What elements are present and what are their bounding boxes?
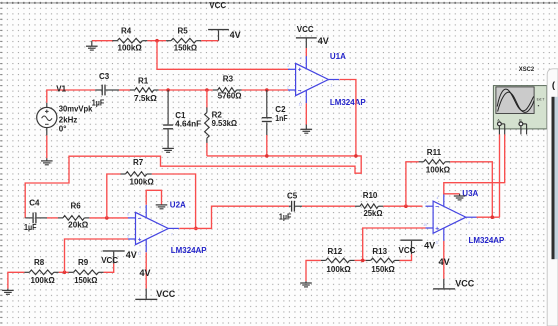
- resistor R12: [321, 247, 355, 274]
- wire: [147, 40, 166, 42]
- svg-text:4V: 4V: [439, 257, 450, 267]
- node junction R10/R11: [404, 204, 408, 208]
- wire: [159, 89, 213, 91]
- ground: [2, 289, 14, 295]
- svg-text:1µF: 1µF: [92, 98, 105, 107]
- svg-text:R9: R9: [78, 258, 89, 267]
- pin numbers U1A: [286, 57, 333, 107]
- wire R12 left to ground: [306, 260, 321, 281]
- svg-text:R4: R4: [121, 27, 132, 36]
- svg-text:+: +: [435, 225, 439, 232]
- svg-text:−: −: [298, 87, 302, 94]
- svg-text:C4: C4: [29, 199, 40, 208]
- node A junction R1/C1: [166, 88, 170, 92]
- power VCC 4V at R9: [101, 250, 137, 265]
- svg-text:4V: 4V: [140, 268, 151, 278]
- svg-text:VCC: VCC: [101, 256, 118, 265]
- svg-text:150kΩ: 150kΩ: [74, 276, 98, 285]
- wire: [47, 217, 58, 219]
- resistor R4: [112, 27, 147, 53]
- node junction R7/output: [194, 227, 198, 231]
- svg-text:Ext T: Ext T: [537, 98, 545, 102]
- oscilloscope XSC2: [493, 66, 546, 134]
- ground U3A: [454, 195, 466, 197]
- node junction R12/R13: [361, 259, 365, 263]
- svg-text:1: 1: [331, 84, 333, 88]
- wire V1 to ground: [46, 135, 48, 158]
- svg-text:11: 11: [299, 103, 303, 107]
- ground: [162, 147, 174, 149]
- source V1: [37, 85, 96, 136]
- wire U1A bottom pin to ground: [305, 103, 307, 124]
- svg-text:4V: 4V: [126, 250, 137, 260]
- node junction C2 bottom: [265, 154, 269, 158]
- power VCC 4V supply: [208, 1, 241, 41]
- op-amp U1A: [288, 52, 366, 107]
- pin numbers U3A: [423, 196, 470, 244]
- capacitor C3: [92, 72, 119, 107]
- svg-text:150kΩ: 150kΩ: [371, 265, 395, 274]
- svg-text:R11: R11: [427, 148, 442, 157]
- svg-text:150kΩ: 150kΩ: [174, 44, 198, 53]
- svg-text:R3: R3: [223, 75, 234, 84]
- svg-text:25kΩ: 25kΩ: [364, 209, 384, 218]
- svg-text:4: 4: [437, 196, 439, 200]
- power VCC 4V at R13: [399, 240, 436, 256]
- capacitor C4: [24, 199, 47, 233]
- node junction R11/output: [491, 215, 495, 219]
- ground: [301, 125, 313, 134]
- power VCC bottom U3A: [433, 257, 475, 290]
- svg-text:0°: 0°: [59, 125, 67, 134]
- svg-text:+: +: [298, 67, 302, 74]
- wire U2A output to C5: [179, 206, 289, 228]
- wire R9 to VCC: [104, 264, 114, 273]
- svg-text:R13: R13: [372, 247, 387, 256]
- resistor R7 feedback: [107, 158, 196, 228]
- wire U3A output: [477, 216, 500, 218]
- svg-text:R1: R1: [138, 76, 149, 85]
- svg-text:5: 5: [127, 234, 129, 238]
- svg-text:100kΩ: 100kΩ: [31, 276, 56, 285]
- svg-text:3: 3: [287, 64, 289, 68]
- svg-text:11: 11: [435, 240, 439, 244]
- wire U2A bottom pin 4V: [145, 252, 147, 298]
- svg-text:9: 9: [425, 201, 427, 205]
- svg-text:C3: C3: [99, 72, 110, 81]
- op-amp U3A: [426, 189, 505, 245]
- wire U3A + input to R12/R13: [363, 228, 426, 260]
- ground: [300, 281, 312, 287]
- svg-text:+: +: [138, 236, 142, 243]
- node junction R8/R9: [63, 271, 67, 275]
- wire: [355, 259, 366, 261]
- svg-text:U3A: U3A: [462, 189, 478, 198]
- pin numbers U2A: [127, 206, 173, 256]
- svg-text:VCC: VCC: [399, 246, 416, 255]
- svg-text:100kΩ: 100kΩ: [118, 44, 143, 53]
- svg-text:LM324AP: LM324AP: [171, 246, 207, 255]
- svg-text:4V: 4V: [318, 36, 329, 46]
- wire U3A bottom pin 4V: [443, 241, 445, 288]
- svg-text:−: −: [138, 215, 142, 222]
- svg-text:8: 8: [468, 221, 470, 225]
- svg-text:4V: 4V: [230, 30, 241, 40]
- node junction R2 top: [205, 88, 209, 92]
- svg-text:C5: C5: [287, 192, 298, 201]
- capacitor C5: [279, 192, 302, 222]
- node B junction C2 top: [265, 88, 269, 92]
- svg-text:LM324AP: LM324AP: [330, 98, 366, 107]
- svg-text:7: 7: [171, 232, 173, 236]
- ground: [41, 158, 53, 165]
- svg-text:30mvVpk: 30mvVpk: [59, 104, 93, 113]
- svg-text:4.64nF: 4.64nF: [175, 120, 201, 129]
- resistor R2: [205, 90, 238, 156]
- wire scope A+ to output: [499, 134, 501, 217]
- ground U2A: [156, 204, 168, 206]
- svg-text:100kΩ: 100kΩ: [326, 265, 351, 274]
- node junction R4/R5: [155, 39, 159, 43]
- wire: [201, 40, 218, 42]
- svg-text:U2A: U2A: [170, 201, 186, 210]
- capacitor C2: [262, 90, 288, 156]
- svg-text:VCC: VCC: [156, 289, 176, 299]
- wire: [119, 89, 130, 91]
- svg-text:VCC: VCC: [455, 279, 475, 289]
- svg-text:9.53kΩ: 9.53kΩ: [212, 119, 238, 128]
- resistor R6: [58, 202, 90, 230]
- svg-text:U1A: U1A: [330, 52, 346, 61]
- node junction R6/R7: [105, 216, 109, 220]
- svg-text:V1: V1: [56, 85, 66, 94]
- wire U1A output down: [340, 80, 356, 156]
- resistor R1: [130, 76, 159, 102]
- svg-text:C2: C2: [275, 105, 286, 114]
- wire scope A- to U3A top pin ground: [444, 134, 505, 194]
- svg-text:1nF: 1nF: [275, 114, 287, 123]
- svg-text:4: 4: [139, 206, 141, 210]
- wire feedback bus to stage 2: [25, 156, 361, 218]
- svg-text:100kΩ: 100kΩ: [426, 165, 451, 174]
- svg-text:1µF: 1µF: [279, 213, 292, 222]
- wire to U2A - input: [89, 217, 128, 219]
- wire R8 left to ground: [8, 272, 25, 288]
- svg-text:R7: R7: [133, 158, 144, 167]
- resistor R13: [366, 247, 400, 274]
- svg-text:LM324AP: LM324AP: [469, 236, 505, 245]
- wire U2A top pin to ground: [146, 190, 161, 205]
- wire: [302, 205, 355, 207]
- svg-text:−: −: [435, 204, 439, 211]
- capacitor C1: [163, 90, 201, 148]
- wire R13 to VCC: [400, 254, 412, 260]
- svg-text:VCC: VCC: [209, 1, 226, 10]
- right panel: [547, 69, 558, 326]
- resistor R9: [69, 258, 104, 285]
- resistor R8: [24, 258, 58, 285]
- ground: [86, 41, 114, 50]
- node junction U1A output: [354, 154, 358, 158]
- wire: [59, 271, 69, 273]
- resistor R11 feedback: [406, 148, 492, 217]
- resistor R3: [213, 75, 242, 101]
- wire junction to U2A + input: [65, 239, 129, 272]
- svg-text:R8: R8: [34, 258, 45, 267]
- svg-text:2kHz: 2kHz: [59, 115, 78, 124]
- power VCC 4V at U1A: [296, 25, 329, 56]
- svg-text:XSC2: XSC2: [519, 66, 535, 73]
- svg-text:R12: R12: [328, 247, 343, 256]
- svg-text:2: 2: [286, 86, 289, 90]
- svg-text:1µF: 1µF: [24, 223, 37, 232]
- svg-text:R5: R5: [178, 27, 189, 36]
- resistor R10: [355, 191, 383, 218]
- svg-text:R6: R6: [71, 202, 82, 211]
- wire to U1A - input: [242, 89, 289, 91]
- wire to U3A - input: [383, 205, 422, 207]
- resistor R5: [166, 27, 201, 53]
- svg-text:10: 10: [423, 223, 427, 227]
- svg-text:4: 4: [300, 57, 302, 61]
- wire to U1A + input: [157, 41, 288, 70]
- svg-text:6: 6: [127, 213, 129, 217]
- svg-text:100kΩ: 100kΩ: [130, 178, 155, 187]
- svg-text:11: 11: [138, 252, 142, 256]
- svg-text:5760Ω: 5760Ω: [218, 92, 242, 101]
- svg-text:VCC: VCC: [297, 25, 314, 34]
- svg-text:4V: 4V: [424, 241, 435, 251]
- power VCC bottom U2A: [135, 268, 175, 300]
- svg-text:7.5kΩ: 7.5kΩ: [134, 94, 157, 103]
- svg-text:R10: R10: [363, 191, 378, 200]
- op-amp U2A: [128, 201, 207, 255]
- svg-text:20kΩ: 20kΩ: [68, 221, 89, 230]
